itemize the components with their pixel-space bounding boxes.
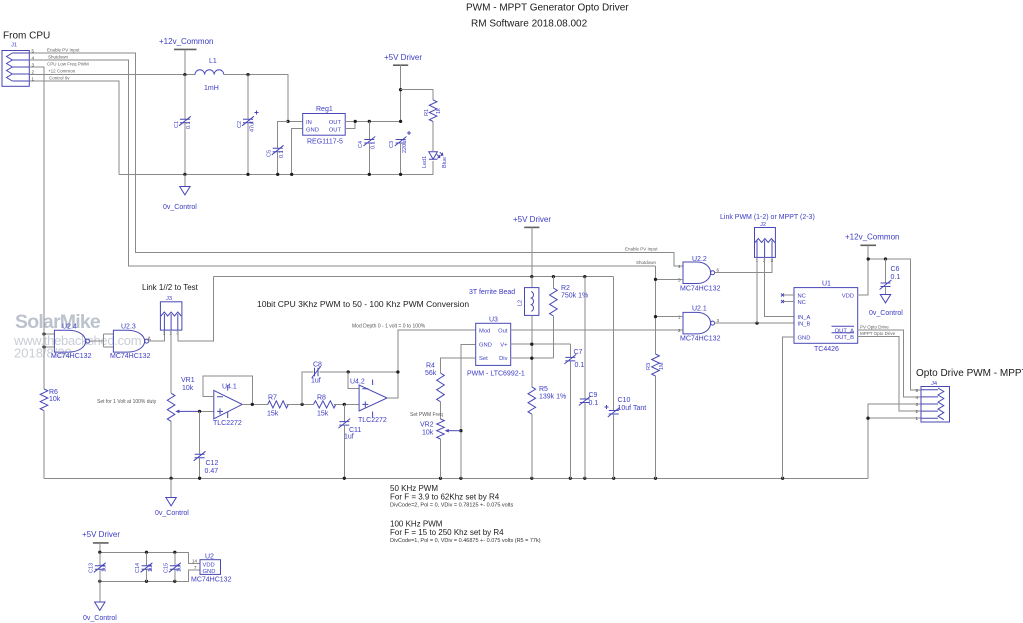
svg-text:NC: NC — [798, 300, 806, 306]
chip U3 PWM LTC6992-1 — [467, 317, 525, 378]
svg-text:15k: 15k — [317, 411, 329, 418]
junctions on 0v power bus — [183, 173, 402, 176]
wire U3 V+ — [511, 343, 571, 345]
svg-text:+12 Common: +12 Common — [48, 69, 76, 74]
svg-text:MC74HC132: MC74HC132 — [110, 353, 151, 360]
svg-text:DivCode=2, Pol = 0, VDiv = 0.7: DivCode=2, Pol = 0, VDiv = 0.78125 +- 0.… — [390, 503, 513, 509]
net label Enable PV Input (right) — [625, 247, 658, 252]
net labels from CPU — [47, 48, 89, 81]
svg-text:L2: L2 — [518, 300, 524, 306]
svg-text:Shutdown: Shutdown — [636, 260, 657, 265]
wire +12 distribution — [868, 259, 921, 390]
svg-text:0.1: 0.1 — [279, 150, 285, 158]
wire U3 GND — [461, 344, 476, 478]
junction C9 top — [583, 275, 586, 278]
junction C11 top — [343, 403, 346, 406]
svg-text:J3: J3 — [166, 296, 172, 302]
svg-text:VR2: VR2 — [420, 422, 434, 429]
junction R2 top — [552, 275, 555, 278]
capacitor C6 0.1 — [880, 259, 901, 295]
svg-text:1uf: 1uf — [102, 564, 108, 572]
svg-text:1uf: 1uf — [177, 564, 183, 572]
svg-text:GND: GND — [798, 336, 811, 342]
wire bypass bottom bus — [100, 570, 200, 582]
connector J2 — [755, 222, 776, 263]
svg-text:TLC2272: TLC2272 — [213, 420, 242, 427]
wire VR1 wiper to U4.1 — [200, 410, 214, 412]
junction feedback at output — [251, 403, 254, 406]
resistor R7 15k — [267, 395, 288, 418]
capacitor C15 1uf — [164, 552, 183, 581]
power rail +12v_Common (right) — [845, 233, 899, 296]
wire U4.1 output — [242, 403, 268, 405]
svg-text:0v_Control: 0v_Control — [83, 615, 117, 622]
wire OUT_A to J4 pin4 — [858, 330, 921, 397]
svg-text:C3: C3 — [389, 141, 395, 148]
note Set PWM Freq — [410, 412, 443, 418]
wire U3 Set — [441, 358, 476, 373]
NAND gate U2.1 — [678, 306, 721, 343]
svg-text:0v_Control: 0v_Control — [163, 204, 197, 211]
svg-text:IN_B: IN_B — [798, 321, 811, 327]
svg-text:1k: 1k — [436, 108, 442, 114]
capacitor C9 0.1 — [579, 277, 598, 479]
capacitor C7 0.1 — [564, 344, 584, 478]
svg-text:R6: R6 — [49, 389, 58, 396]
NAND gate U2.3 — [110, 324, 151, 361]
wire U2.1 output to U1 IN_B — [715, 322, 794, 324]
svg-text:1mH: 1mH — [204, 85, 219, 92]
net label MPPT Opto Drive — [860, 331, 896, 336]
wire shutdown to U2.2 pin5 — [656, 278, 684, 280]
junction U2.4 inputs — [42, 332, 45, 348]
svg-text:1uf: 1uf — [344, 434, 354, 441]
svg-text:RM Software 2018.08.002: RM Software 2018.08.002 — [471, 19, 588, 30]
svg-text:0v_Control: 0v_Control — [155, 510, 189, 517]
svg-text:Enable PV Input: Enable PV Input — [625, 247, 658, 252]
capacitor C14 1uf — [135, 552, 154, 581]
svg-text:VR1: VR1 — [181, 377, 195, 384]
svg-text:Out: Out — [498, 328, 508, 334]
svg-text:OUT_A: OUT_A — [835, 328, 854, 334]
node label From CPU — [3, 31, 50, 42]
junction C3 top — [399, 120, 402, 123]
capacitor C1 — [174, 75, 192, 175]
connector J3 — [160, 296, 182, 336]
wire U3 Div — [511, 357, 554, 359]
power rail +5V Driver (middle) — [513, 215, 551, 277]
svg-text:U4.2: U4.2 — [350, 379, 365, 386]
junction OUT join — [354, 120, 357, 123]
svg-text:V+: V+ — [500, 343, 508, 349]
svg-text:IN: IN — [306, 120, 312, 126]
svg-text:C7: C7 — [574, 349, 583, 356]
wire Reg1 GND to 0v — [292, 129, 303, 175]
wire bypass top bus — [100, 552, 200, 563]
junction R1 branch — [399, 88, 402, 91]
svg-text:750k 1%: 750k 1% — [561, 293, 588, 300]
svg-text:PWM - LTC6992-1: PWM - LTC6992-1 — [467, 371, 525, 378]
svg-text:NC: NC — [798, 294, 806, 300]
svg-text:Set: Set — [479, 356, 488, 362]
svg-text:0.47: 0.47 — [205, 468, 219, 475]
svg-text:R8: R8 — [317, 395, 326, 402]
svg-text:10uf Tant: 10uf Tant — [618, 405, 647, 412]
wire Control 0v — [29, 81, 119, 174]
wire OUT_B to J4 pin2 — [858, 336, 921, 411]
junction C8 branch — [300, 403, 303, 406]
resistor R5 139k 1% — [528, 386, 566, 478]
svg-text:TC4426: TC4426 — [814, 346, 839, 353]
svg-text:From CPU: From CPU — [3, 31, 50, 42]
op-amp U4.2 TLC2272 — [350, 379, 387, 425]
wire 0v power bus — [119, 161, 433, 174]
svg-text:GND: GND — [306, 128, 319, 134]
junction VR2 wiper on GND wire — [459, 429, 462, 432]
LED Led1 Blue — [422, 152, 448, 175]
svg-text:Set PWM Freq: Set PWM Freq — [410, 412, 443, 418]
node label Link PWM — [720, 214, 815, 221]
wire Reg1 OUT join — [345, 121, 400, 128]
svg-text:PWM - MPPT Generator Opto Driv: PWM - MPPT Generator Opto Driver — [466, 3, 629, 14]
wire Enable PV Input — [29, 53, 683, 266]
junction IN node — [286, 120, 289, 123]
svg-text:0.1: 0.1 — [891, 274, 901, 281]
svg-text:0v_Control: 0v_Control — [869, 310, 903, 317]
svg-text:R4: R4 — [426, 363, 435, 370]
potentiometer VR1 10k — [167, 377, 199, 478]
node label Opto Drive PWM - MPPT — [916, 368, 1023, 379]
note 3T ferrite Bead — [469, 289, 515, 296]
title text — [466, 3, 629, 30]
svg-text:REG1117-5: REG1117-5 — [307, 139, 343, 146]
svg-text:VDD: VDD — [842, 294, 854, 300]
op-amp U4.1 TLC2272 — [213, 384, 242, 428]
wire C8 net — [302, 372, 398, 404]
svg-text:CPU Low Freq PWM: CPU Low Freq PWM — [47, 62, 89, 67]
junction C12 top — [198, 410, 201, 413]
svg-text:C10: C10 — [618, 397, 631, 404]
capacitor C10 10uf Tant — [605, 277, 647, 479]
svg-text:Enable PV Input: Enable PV Input — [47, 48, 80, 53]
svg-text:10bit CPU 3Khz PWM to 50 - 100: 10bit CPU 3Khz PWM to 50 - 100 Khz PWM C… — [257, 299, 469, 309]
svg-text:0.1: 0.1 — [589, 400, 599, 407]
svg-text:220uf: 220uf — [402, 139, 408, 153]
wire +12 Common — [29, 75, 302, 122]
svg-text:OUT: OUT — [329, 120, 342, 126]
svg-text:Shutdown: Shutdown — [48, 55, 69, 60]
svg-text:U2.1: U2.1 — [692, 306, 707, 313]
wire U3 Out to U2.1 — [511, 329, 683, 331]
svg-text:3T ferrite Bead: 3T ferrite Bead — [469, 289, 515, 296]
capacitor C8 1uf — [311, 362, 322, 385]
junction +5 feed on bus — [530, 275, 533, 278]
connector J4 — [916, 381, 950, 422]
wire J3 pin3 to +5V bus — [178, 277, 214, 341]
svg-text:+12v_Common: +12v_Common — [845, 233, 899, 242]
wire U4.1 feedback — [203, 376, 252, 404]
svg-text:Opto Drive PWM - MPPT: Opto Drive PWM - MPPT — [916, 368, 1023, 379]
svg-text:1uf: 1uf — [311, 378, 321, 385]
junction L2 to V+ — [530, 343, 533, 346]
capacitor C2 polarized — [237, 75, 259, 175]
note Mod Depth — [352, 324, 426, 330]
svg-text:Reg1: Reg1 — [316, 106, 333, 113]
wire J2 pin1 down — [756, 257, 758, 323]
junction C6 top — [884, 257, 887, 260]
junction J4 ground wires — [866, 417, 869, 420]
capacitor C13 1uf — [89, 552, 108, 581]
svg-text:10k: 10k — [182, 385, 194, 392]
ground 0v_Control (power section) — [163, 174, 197, 211]
junction shutdown U2.1 — [654, 315, 657, 318]
wire U4.2 output to Mod — [387, 330, 476, 398]
ground 0v_Control (bottom left) — [83, 581, 117, 622]
svg-text:MPPT Opto Drive: MPPT Opto Drive — [860, 331, 896, 336]
power rail +5V Driver (bottom left) — [82, 530, 120, 552]
wire U2.4 out to U2.3 inputs — [90, 334, 114, 347]
svg-text:J1: J1 — [11, 43, 17, 49]
svg-text:0.1: 0.1 — [371, 141, 377, 149]
svg-text:+12v_Common: +12v_Common — [159, 37, 213, 46]
note 100 KHz PWM — [390, 520, 541, 545]
svg-text:GND: GND — [479, 343, 492, 349]
svg-text:Link 1//2 to Test: Link 1//2 to Test — [142, 283, 199, 292]
svg-text:GND: GND — [203, 569, 216, 575]
svg-text:C12: C12 — [206, 460, 219, 467]
watermark SolarMike — [13, 311, 141, 361]
svg-text:10k: 10k — [49, 396, 61, 403]
junction C2 top — [246, 73, 249, 76]
regulator Reg1 REG1117-5 — [303, 106, 346, 146]
capacitor C5 — [267, 121, 289, 174]
junction shutdown pin5 — [654, 278, 657, 281]
chip U2 power MC74HC132 — [191, 554, 232, 584]
svg-text:0.1: 0.1 — [186, 121, 192, 129]
svg-text:U3: U3 — [489, 317, 498, 324]
power rail +12v_Common (left) — [159, 37, 213, 75]
wire J3 pin2 to VR1 — [170, 330, 172, 393]
svg-text:Link PWM (1-2) or MPPT (2-3): Link PWM (1-2) or MPPT (2-3) — [720, 214, 815, 221]
svg-text:TLC2272: TLC2272 — [358, 417, 387, 424]
capacitor C4 — [358, 121, 377, 174]
svg-text:For F = 3.9 to 62Khz set by R4: For F = 3.9 to 62Khz set by R4 — [390, 493, 500, 502]
svg-text:MC74HC132: MC74HC132 — [680, 286, 721, 293]
wire U2.2 output to J2 pin3 — [715, 257, 772, 272]
svg-text:C8: C8 — [313, 362, 322, 369]
potentiometer VR2 10k — [420, 419, 461, 478]
power rail +5V Driver (top) — [384, 53, 422, 121]
svg-text:C15: C15 — [164, 563, 170, 573]
capacitor C3 polarized — [389, 131, 411, 174]
ground 0v_Control (C6) — [869, 295, 903, 318]
svg-text:Mod Depth 0 - 1 volt = 0 to 10: Mod Depth 0 - 1 volt = 0 to 100% — [352, 324, 426, 330]
svg-text:MC74HC132: MC74HC132 — [680, 336, 721, 343]
svg-text:U4.1: U4.1 — [222, 384, 237, 391]
svg-text:56k: 56k — [425, 370, 437, 377]
svg-text:14: 14 — [192, 559, 198, 564]
NAND gate U2.4 — [51, 324, 92, 361]
wire U1 GND to 0v — [783, 337, 794, 478]
chip U1 TC4426 — [794, 281, 858, 354]
svg-text:R5: R5 — [539, 386, 548, 393]
svg-text:+5V Driver: +5V Driver — [82, 530, 120, 539]
connector J1 — [2, 43, 29, 87]
svg-text:DivCode=1, Pol = 0, VDiv = 0.4: DivCode=1, Pol = 0, VDiv = 0.46875 +- 0.… — [390, 538, 541, 544]
svg-text:139k 1%: 139k 1% — [539, 394, 566, 401]
wire R8 to U4.2 plus — [334, 403, 359, 405]
wire J2 pin2 to IN_A — [765, 257, 794, 316]
node A — [148, 337, 152, 343]
svg-text:MC74HC132: MC74HC132 — [51, 353, 92, 360]
svg-text:R1: R1 — [424, 109, 430, 116]
wire shutdown to U2.1 pin1 — [656, 316, 684, 318]
svg-text:Set for 1 Volt at 100% duty: Set for 1 Volt at 100% duty — [97, 399, 157, 405]
svg-text:U2.3: U2.3 — [121, 324, 136, 331]
svg-text:15k: 15k — [267, 411, 279, 418]
junction Div divider — [530, 357, 533, 360]
junction feedback U4.2 — [396, 370, 399, 373]
svg-text:Control 0v: Control 0v — [49, 76, 70, 81]
resistor R1 — [424, 100, 442, 151]
ground 0v_Control (main bus) — [155, 478, 189, 517]
wire A to J3 pin1 — [149, 330, 165, 341]
wire 0v main bus — [44, 477, 868, 479]
svg-text:R2: R2 — [561, 285, 570, 292]
NAND gate U2.2 — [678, 256, 721, 293]
net label PV Opto Drive — [860, 324, 889, 329]
wire R1 branch — [401, 90, 434, 100]
svg-text:MC74HC132: MC74HC132 — [191, 577, 232, 584]
resistor R6 10k — [40, 67, 61, 478]
section title 10bit conversion — [257, 299, 469, 309]
svg-text:U2.4: U2.4 — [62, 324, 77, 331]
resistor R3 pulldown — [646, 266, 665, 478]
wire +5V bus — [214, 276, 614, 278]
junction +12 rail — [183, 73, 186, 76]
junction C4 top — [368, 120, 371, 123]
svg-text:10k: 10k — [422, 430, 434, 437]
svg-text:For F = 15 to 250 Khz set by R: For F = 15 to 250 Khz set by R4 — [390, 528, 504, 537]
svg-text:+5V Driver: +5V Driver — [513, 215, 551, 224]
svg-text:+5V Driver: +5V Driver — [384, 53, 422, 62]
svg-text:C13: C13 — [89, 563, 95, 573]
node label Link 1//2 to Test — [142, 283, 199, 292]
junctions bypass buses — [98, 551, 176, 583]
capacitor C12 0.47 — [194, 411, 219, 478]
svg-text:Blue: Blue — [442, 157, 448, 168]
resistor R4 56k — [425, 363, 444, 420]
svg-text:OUT: OUT — [329, 128, 342, 134]
svg-text:C2: C2 — [237, 121, 243, 128]
svg-text:Div: Div — [499, 356, 507, 362]
net label Shutdown (right) — [636, 260, 657, 265]
svg-text:C9: C9 — [589, 392, 598, 399]
junctions on 0v main bus — [169, 477, 784, 480]
inductor L1 — [195, 58, 224, 92]
svg-text:1M: 1M — [659, 362, 665, 370]
junction J2 pin1 on IN_B — [755, 321, 758, 324]
wire CPU Low Freq PWM — [29, 67, 44, 389]
svg-text:0.1: 0.1 — [575, 362, 585, 369]
svg-text:Led1: Led1 — [422, 156, 428, 168]
resistor R8 15k — [314, 395, 336, 418]
svg-text:1uf: 1uf — [148, 564, 154, 572]
svg-text:C5: C5 — [267, 150, 273, 157]
svg-text:R3: R3 — [646, 363, 652, 370]
note Set for 1 Volt — [97, 399, 157, 405]
svg-text:OUT_B: OUT_B — [835, 335, 854, 341]
J1 pin numbers — [32, 49, 35, 82]
svg-text:PV Opto Drive: PV Opto Drive — [860, 324, 889, 329]
wire CPU PWM to gate inputs — [44, 334, 54, 347]
svg-text:L1: L1 — [209, 58, 217, 65]
svg-text:IN_A: IN_A — [798, 315, 811, 321]
svg-text:U1: U1 — [822, 281, 831, 288]
junction C8 to minus input — [347, 370, 350, 373]
wire to U4.2 minus — [348, 372, 359, 389]
resistor R2 750k 1% — [550, 277, 589, 359]
svg-text:47uf: 47uf — [250, 121, 256, 132]
ferrite bead L2 — [518, 277, 539, 387]
capacitor C11 1uf — [338, 404, 361, 478]
note 50 KHz PWM — [390, 484, 513, 509]
wire R7 to R8 — [286, 403, 313, 405]
svg-text:VDD: VDD — [203, 563, 215, 569]
svg-text:C4: C4 — [358, 141, 364, 148]
svg-text:Mod: Mod — [479, 328, 490, 334]
junction VDD branch — [867, 257, 870, 260]
wire Shutdown — [29, 60, 655, 266]
svg-text:C14: C14 — [135, 563, 141, 573]
svg-text:C1: C1 — [174, 121, 180, 128]
NC pin stubs — [781, 294, 794, 304]
wire J4 pin3 pin1 to 0v — [868, 404, 921, 478]
svg-text:C6: C6 — [891, 266, 900, 273]
